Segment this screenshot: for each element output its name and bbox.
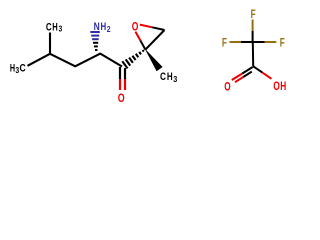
wire bond ring CH2 to oxirane C	[146, 30, 165, 50]
svg-text:H: H	[280, 80, 286, 93]
wire bond F top to CF3 C (gold/black)	[252, 20, 254, 31]
svg-text:C: C	[20, 62, 26, 74]
wire bond CF3 C to carboxyl C	[252, 42, 254, 66]
label OH	[273, 80, 286, 93]
svg-text:N: N	[94, 21, 100, 33]
label CH3 (oxirane methyl)	[160, 71, 178, 84]
svg-text:F: F	[280, 36, 285, 49]
wire bond epoxide O to oxirane C (red/black)	[135, 32, 140, 41]
double bond C1=O	[120, 67, 125, 90]
svg-text:H: H	[167, 71, 173, 83]
hashed wedge bond C2 to NH2	[90, 32, 100, 50]
svg-text:3: 3	[173, 75, 177, 84]
bold wedge bond oxirane C to CH3	[145, 49, 163, 72]
wire bond F left to CF3 C (gold/black)	[230, 41, 242, 43]
svg-text:H: H	[101, 21, 107, 33]
wire bond CF3 C to F right (black/gold)	[253, 41, 265, 43]
wire bond H3C to C4	[28, 54, 123, 67]
svg-text:H: H	[52, 21, 58, 33]
wire bond C4 to CH3 (vertical)	[49, 33, 51, 54]
double bond carboxyl C=O (black/red halves)	[232, 67, 253, 82]
hashed wedge bond C1 to oxirane C	[122, 50, 143, 68]
svg-text:O: O	[132, 20, 139, 33]
label NH2	[94, 21, 111, 34]
svg-text:3: 3	[59, 25, 63, 34]
svg-text:O: O	[273, 80, 280, 93]
svg-text:C: C	[160, 71, 166, 83]
svg-text:H: H	[10, 62, 15, 74]
wire bond carboxyl C to OH (black/red)	[253, 66, 262, 72]
label H3C	[10, 62, 26, 75]
svg-text:O: O	[224, 81, 230, 94]
svg-text:F: F	[222, 36, 227, 49]
svg-text:C: C	[46, 21, 52, 33]
wire bond epoxide O to ring CH2 (red/black)	[140, 25, 152, 28]
svg-text:F: F	[251, 8, 256, 21]
svg-text:O: O	[118, 92, 125, 105]
label CH3 top	[46, 21, 63, 33]
svg-text:2: 2	[107, 25, 111, 34]
